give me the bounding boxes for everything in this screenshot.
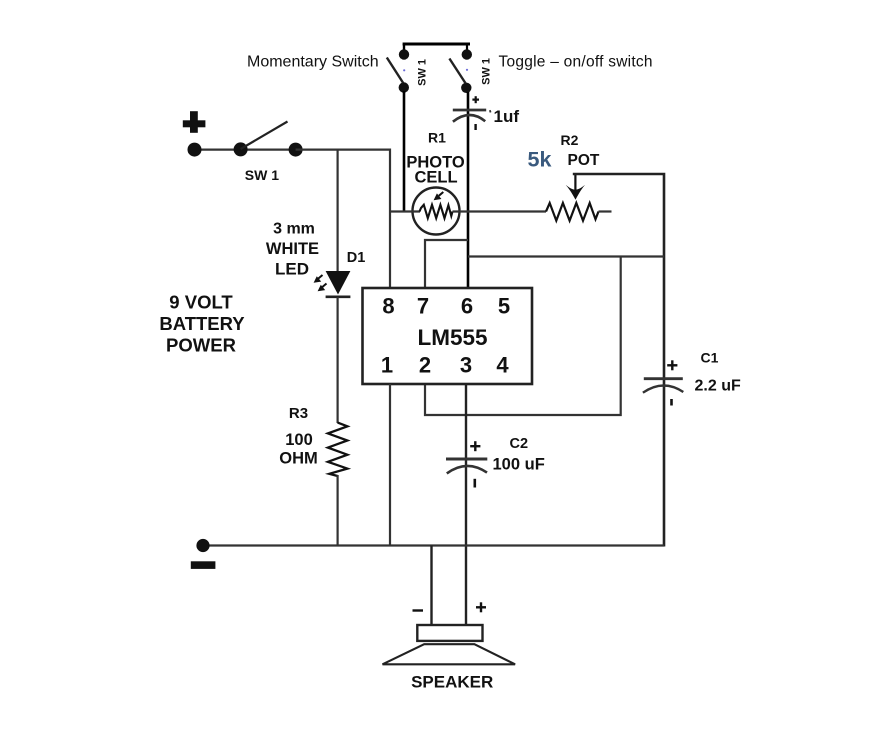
wire: battery bus to pin 8 corner — [296, 150, 390, 288]
artifact: blue speck right switch — [466, 69, 468, 71]
svg-text:3: 3 — [460, 353, 472, 378]
battery negative terminal dot — [196, 539, 209, 552]
svg-text:R3: R3 — [289, 405, 308, 422]
svg-text:POT: POT — [568, 152, 600, 169]
wire: LED to R3 — [337, 297, 339, 423]
svg-text:R1: R1 — [428, 130, 446, 146]
svg-text:100 uF: 100 uF — [493, 456, 545, 474]
battery negative bar — [191, 561, 216, 569]
svg-text:SW 1: SW 1 — [245, 167, 279, 183]
svg-text:OHM: OHM — [279, 450, 318, 468]
svg-text:C2: C2 — [510, 436, 529, 452]
wire: pin 3 through C2 to speaker plus — [465, 384, 467, 625]
svg-text:100: 100 — [285, 431, 313, 449]
capacitor C1 — [643, 350, 741, 406]
capacitor C2 — [446, 436, 545, 488]
wire: R3 to ground bus — [337, 475, 339, 547]
battery positive terminal — [183, 111, 206, 133]
wire: ground bus — [203, 544, 664, 546]
wire: momentary switch down to photocell node — [403, 91, 406, 213]
svg-text:WHITE: WHITE — [266, 240, 319, 258]
svg-text:5k: 5k — [528, 148, 552, 172]
wire: branch down to LED — [337, 150, 339, 272]
wire: pin 2 loop to bus — [425, 257, 621, 416]
svg-text:LED: LED — [275, 260, 309, 279]
svg-text:1: 1 — [381, 353, 393, 378]
svg-text:R2: R2 — [561, 132, 579, 148]
switch SW1 momentary — [387, 49, 429, 92]
capacitor 1uf — [453, 96, 520, 130]
svg-text:POWER: POWER — [166, 335, 236, 356]
svg-text:D1: D1 — [347, 250, 366, 266]
svg-text:LM555: LM555 — [417, 325, 487, 350]
svg-text:2: 2 — [419, 353, 431, 378]
IC LM555 — [363, 288, 533, 384]
svg-text:6: 6 — [461, 294, 473, 319]
potentiometer R2 — [528, 132, 665, 547]
artifact: blue speck left switch — [403, 69, 405, 71]
svg-text:3 mm: 3 mm — [273, 221, 315, 238]
wire: toggle switch through capacitor 1uf down to pin 6 — [467, 92, 470, 288]
wire: pin 1 to ground bus — [389, 384, 391, 547]
svg-text:SW 1: SW 1 — [480, 58, 492, 85]
svg-text:2.2 uF: 2.2 uF — [695, 378, 741, 395]
resistor R3 — [279, 405, 347, 476]
svg-text:CELL: CELL — [414, 169, 457, 187]
switch SW 1 battery with terminal dots — [188, 122, 303, 184]
text: 9 VOLT BATTERY POWER — [159, 292, 245, 356]
svg-text:1uf: 1uf — [494, 107, 520, 126]
svg-text:Toggle – on/off switch: Toggle – on/off switch — [499, 54, 653, 71]
speaker — [383, 602, 516, 691]
photocell R1 — [390, 130, 546, 235]
wire: pin 7 to cap node — [425, 240, 468, 288]
wire: speaker minus lead — [430, 546, 432, 626]
wire: bus pins 2/6 to right rail — [468, 255, 664, 257]
svg-text:BATTERY: BATTERY — [159, 313, 245, 334]
svg-text:9 VOLT: 9 VOLT — [169, 292, 233, 313]
text: 3 mm WHITE LED — [266, 221, 319, 279]
svg-text:7: 7 — [417, 294, 429, 319]
svg-text:Momentary Switch: Momentary Switch — [247, 54, 379, 71]
svg-text:SPEAKER: SPEAKER — [411, 673, 493, 692]
switch SW1 toggle — [449, 49, 492, 93]
svg-text:SW 1: SW 1 — [416, 59, 428, 86]
LED D1 — [314, 250, 366, 297]
svg-text:C1: C1 — [701, 350, 719, 366]
svg-text:4: 4 — [496, 353, 509, 378]
wire: top bus joining both switches — [403, 43, 470, 46]
svg-text:8: 8 — [382, 294, 394, 319]
svg-text:5: 5 — [498, 294, 510, 319]
